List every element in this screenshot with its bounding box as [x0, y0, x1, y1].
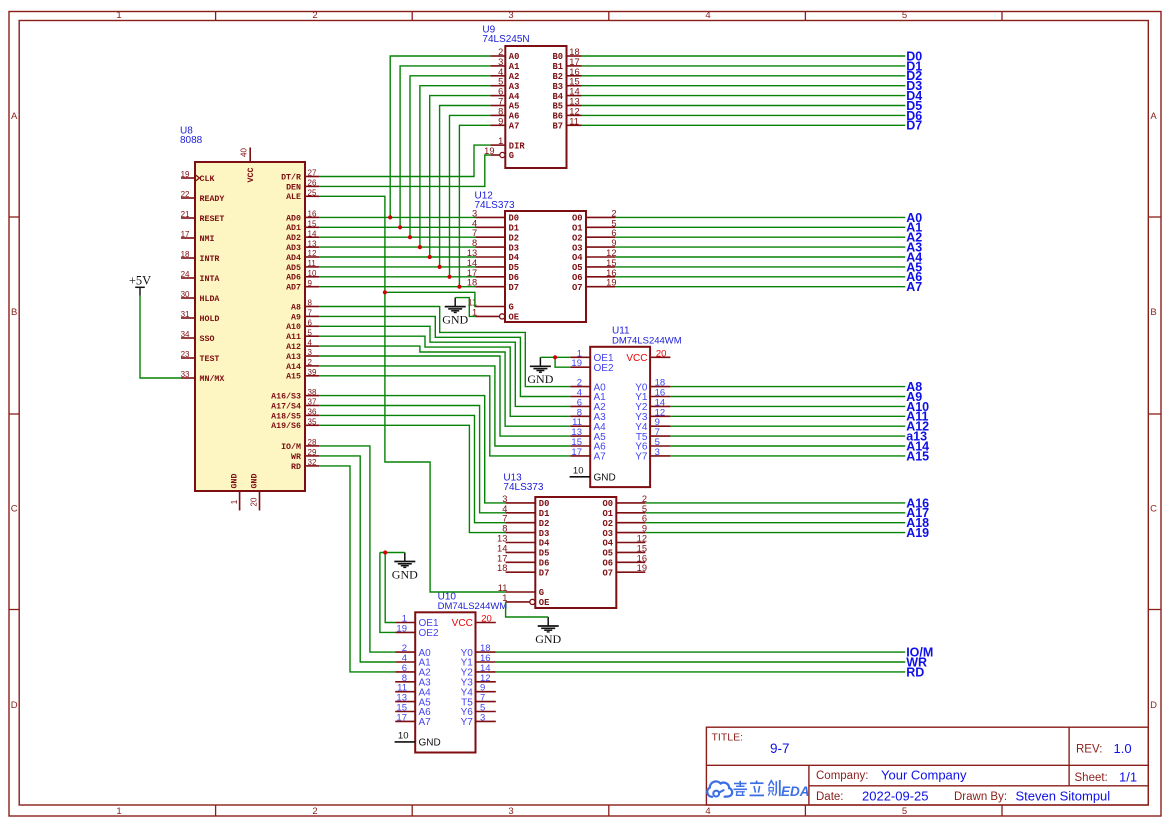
wire U13 O1 to net A17: [645, 512, 905, 514]
svg-text:B0: B0: [552, 52, 563, 62]
junction AD1: [398, 225, 402, 229]
svg-text:10: 10: [398, 731, 409, 742]
title block frame: [706, 727, 1148, 805]
svg-text:3: 3: [498, 57, 503, 67]
U12 pin 1 OE inverted: [472, 307, 519, 322]
svg-text:29: 29: [308, 448, 317, 457]
svg-text:16: 16: [569, 67, 579, 77]
svg-text:A19: A19: [906, 526, 929, 540]
wire ALE branch to U12 G: [385, 292, 476, 306]
wire ALE to U12 G and U13 G: [319, 196, 506, 592]
svg-text:GND: GND: [594, 473, 616, 484]
net label A17: [906, 506, 929, 520]
net label A16: [906, 496, 929, 510]
svg-text:15: 15: [569, 77, 579, 87]
svg-text:14: 14: [308, 229, 317, 238]
net label A9: [906, 390, 922, 404]
svg-text:A6: A6: [509, 112, 520, 122]
svg-text:O4: O4: [602, 539, 613, 549]
wire U9 B6 to net D6: [582, 114, 906, 116]
svg-text:37: 37: [308, 398, 317, 407]
svg-text:40: 40: [240, 148, 249, 157]
svg-text:32: 32: [308, 458, 317, 467]
title block Company: [816, 768, 967, 783]
svg-text:AD6: AD6: [286, 274, 301, 283]
svg-text:A1: A1: [509, 62, 520, 72]
wire AD0 bus U8 to U12 D0: [319, 216, 475, 218]
wire U13 O0 to net A16: [645, 502, 905, 504]
svg-text:18: 18: [569, 47, 579, 57]
ground GND4 at U13 OE: [535, 617, 561, 646]
U8 pin 20 GND: [250, 474, 260, 511]
wire A8 U8 to U11 A0: [319, 307, 570, 387]
U11 refdes label: [612, 326, 682, 347]
svg-text:D3: D3: [509, 243, 520, 253]
svg-text:A17/S4: A17/S4: [271, 401, 301, 411]
U10 left pins: [395, 614, 439, 729]
svg-text:C: C: [1150, 504, 1157, 515]
svg-text:17: 17: [571, 447, 582, 458]
svg-text:AD7: AD7: [286, 284, 301, 293]
svg-text:A8: A8: [291, 303, 301, 312]
wire U11 Y4 to net A12: [670, 425, 905, 427]
net label D1: [906, 59, 922, 73]
svg-text:HOLD: HOLD: [200, 315, 220, 324]
wire U10 Y1 to net WR: [496, 661, 906, 663]
U9 right pins B0-B7: [552, 47, 581, 132]
svg-text:35: 35: [308, 418, 317, 427]
svg-text:B4: B4: [552, 92, 563, 102]
frame column numbers: [116, 10, 907, 817]
svg-text:12: 12: [308, 249, 317, 258]
svg-text:23: 23: [181, 350, 190, 359]
wire U11 Y2 to net A10: [670, 405, 905, 407]
svg-text:A2: A2: [509, 72, 520, 82]
U8 left pins: [181, 170, 225, 384]
junction AD4: [428, 255, 432, 259]
latch U13 74LS373 body: [535, 497, 616, 608]
U9 refdes label: [482, 25, 529, 46]
wire A15 U8 to U11 A7: [319, 376, 570, 456]
svg-text:2022-09-25: 2022-09-25: [862, 789, 929, 804]
svg-text:17: 17: [569, 57, 579, 67]
U13 right pins O0-O7: [602, 494, 647, 579]
junction AD2: [408, 235, 412, 239]
U12 left pins D0-D7: [467, 208, 520, 293]
net label A3: [906, 241, 922, 255]
svg-text:D3: D3: [539, 529, 550, 539]
net label A8: [906, 380, 922, 394]
svg-text:13: 13: [308, 239, 317, 248]
svg-text:17: 17: [497, 553, 507, 563]
wire AD6 riser to U9 A6: [450, 115, 491, 276]
wire WR U8 to U10 A1: [319, 456, 395, 662]
U11 left pins: [570, 348, 614, 462]
U8 pin 40 VCC: [240, 148, 257, 183]
svg-text:D7: D7: [906, 119, 922, 133]
junction ALE branch: [383, 290, 387, 294]
U12 pin 11 G: [468, 298, 514, 313]
svg-text:G: G: [539, 588, 544, 598]
svg-text:14: 14: [569, 87, 579, 97]
svg-text:D2: D2: [509, 233, 520, 243]
svg-text:Steven Sitompul: Steven Sitompul: [1016, 789, 1111, 804]
svg-text:1: 1: [498, 136, 503, 146]
net label D7: [906, 119, 922, 133]
wire DT/R to U9 DIR: [319, 145, 490, 176]
svg-text:OE: OE: [509, 313, 520, 323]
svg-text:D4: D4: [509, 253, 520, 263]
wire U9 B4 to net D4: [582, 95, 906, 97]
wire A10 U8 to U11 A2: [319, 326, 570, 406]
wire AD4 bus U8 to U12 D4: [319, 256, 475, 258]
wire AD1 riser to U9 A1: [400, 66, 490, 227]
wire A17 U8 to U13 D1: [319, 406, 506, 513]
svg-text:4: 4: [498, 67, 503, 77]
svg-text:SSO: SSO: [200, 335, 215, 344]
svg-text:B5: B5: [552, 102, 563, 112]
svg-text:B7: B7: [552, 122, 563, 132]
wire AD7 bus U8 to U12 D7: [319, 286, 475, 288]
svg-text:O5: O5: [572, 263, 583, 273]
wire AD5 riser to U9 A5: [440, 106, 491, 267]
svg-text:DM74LS244WM: DM74LS244WM: [438, 601, 508, 612]
net label A5: [906, 260, 922, 274]
wire U12 O5 to net A5: [615, 266, 905, 268]
svg-text:10: 10: [573, 465, 584, 476]
wire RD U8 to U10 A2: [319, 466, 395, 672]
svg-text:5: 5: [308, 328, 313, 337]
wire A14 U8 to U11 A6: [319, 366, 570, 446]
svg-text:O3: O3: [602, 529, 613, 539]
svg-text:ALE: ALE: [286, 193, 301, 202]
net label A1: [906, 221, 922, 235]
U10 right pins Y0-Y7: [461, 643, 496, 728]
svg-text:O0: O0: [602, 499, 613, 509]
svg-text:O1: O1: [602, 509, 613, 519]
svg-text:A11: A11: [286, 333, 301, 342]
wire U10 Y2 to net RD: [496, 671, 906, 673]
U13 pin 11 G: [498, 583, 544, 598]
net label D6: [906, 109, 922, 123]
svg-text:OE2: OE2: [594, 363, 614, 374]
svg-text:19: 19: [637, 563, 647, 573]
svg-text:C: C: [11, 504, 18, 515]
wire AD3 bus U8 to U12 D3: [319, 246, 475, 248]
svg-text:D6: D6: [539, 559, 550, 569]
svg-text:3: 3: [308, 348, 313, 357]
wire U11 Y5 to net a13: [670, 435, 905, 437]
wire U12 OE to GND1: [455, 298, 475, 317]
svg-text:B6: B6: [552, 112, 563, 122]
wire AD6 bus U8 to U12 D6: [319, 276, 475, 278]
svg-text:A16/S3: A16/S3: [271, 392, 301, 402]
svg-text:7: 7: [308, 309, 313, 318]
svg-text:2: 2: [312, 806, 317, 817]
svg-text:74LS245N: 74LS245N: [482, 34, 529, 45]
junction U11 OE ground: [553, 355, 557, 359]
U8 right pins: [271, 169, 319, 472]
svg-text:D2: D2: [539, 519, 550, 529]
svg-text:12: 12: [606, 248, 616, 258]
U11 pin 10 GND: [570, 465, 616, 483]
junction U10 OE ground: [383, 550, 387, 554]
svg-text:A7: A7: [594, 452, 607, 463]
svg-text:A10: A10: [286, 323, 301, 332]
svg-text:10: 10: [308, 269, 317, 278]
power flag +5V: [129, 274, 151, 296]
svg-text:TEST: TEST: [200, 355, 220, 364]
ground GND2 near U10 OE: [392, 553, 418, 582]
svg-text:D4: D4: [539, 539, 550, 549]
svg-text:O6: O6: [602, 559, 613, 569]
U12 refdes label: [475, 191, 515, 212]
wire U13 OE to GND4: [506, 602, 549, 617]
svg-text:VCC: VCC: [452, 618, 473, 629]
wire AD7 riser to U9 A7: [459, 125, 490, 286]
svg-text:3: 3: [655, 447, 660, 458]
svg-text:VCC: VCC: [626, 353, 647, 364]
svg-text:19: 19: [181, 170, 190, 179]
svg-text:GND: GND: [392, 567, 418, 581]
svg-text:GND: GND: [230, 474, 239, 489]
svg-text:DT/R: DT/R: [281, 172, 301, 182]
wire U9 B1 to net D1: [582, 65, 906, 67]
svg-text:A3: A3: [509, 82, 520, 92]
wire U9 B0 to net D0: [582, 55, 906, 57]
svg-text:15: 15: [637, 543, 647, 553]
svg-text:12: 12: [637, 534, 647, 544]
svg-text:D7: D7: [539, 568, 550, 578]
wire U10 Y0 to net IO/M: [496, 651, 906, 653]
svg-text:33: 33: [181, 370, 190, 379]
svg-text:25: 25: [308, 189, 317, 198]
svg-text:Y7: Y7: [635, 452, 648, 463]
svg-text:REV:: REV:: [1076, 744, 1102, 756]
svg-text:1: 1: [116, 10, 121, 21]
svg-text:4: 4: [705, 10, 710, 21]
U9 left pins A0-A7: [490, 47, 520, 132]
title block Date: [816, 789, 929, 804]
svg-text:OE2: OE2: [419, 628, 439, 639]
U11 right pins Y0-Y7: [635, 378, 670, 463]
wire U11 Y0 to net A8: [670, 386, 905, 388]
svg-text:2: 2: [312, 10, 317, 21]
svg-text:34: 34: [181, 330, 190, 339]
net label D2: [906, 69, 922, 83]
svg-text:A4: A4: [509, 92, 520, 102]
svg-text:O7: O7: [602, 568, 613, 578]
svg-text:14: 14: [497, 543, 507, 553]
svg-text:3: 3: [508, 806, 513, 817]
svg-text:36: 36: [308, 408, 317, 417]
svg-text:INTA: INTA: [200, 275, 220, 284]
wire U9 B7 to net D7: [582, 124, 906, 126]
net label A10: [906, 400, 929, 414]
net label RD: [906, 665, 924, 679]
svg-text:20: 20: [250, 497, 259, 506]
U10 pin 10 GND: [395, 731, 441, 749]
net label A19: [906, 526, 929, 540]
svg-text:O2: O2: [572, 233, 583, 243]
svg-text:17: 17: [396, 712, 407, 723]
svg-text:O2: O2: [602, 519, 613, 529]
svg-text:EDA: EDA: [781, 784, 810, 799]
svg-text:O0: O0: [572, 214, 583, 224]
wire AD4 riser to U9 A4: [430, 96, 491, 257]
svg-text:1: 1: [116, 806, 121, 817]
U8 pin 1 GND: [230, 474, 240, 511]
svg-text:A15: A15: [286, 373, 301, 382]
svg-text:D1: D1: [539, 509, 550, 519]
svg-text:Y7: Y7: [461, 717, 474, 728]
svg-text:3: 3: [508, 10, 513, 21]
svg-text:30: 30: [181, 290, 190, 299]
wire A18 U8 to U13 D2: [319, 415, 506, 522]
svg-text:DEN: DEN: [286, 183, 301, 192]
svg-text:1/1: 1/1: [1119, 770, 1137, 785]
svg-text:38: 38: [308, 388, 317, 397]
wire IO/M U8 to U10 A0: [319, 446, 395, 652]
svg-text:A0: A0: [509, 52, 520, 62]
buffer U9 74LS245N body: [505, 46, 566, 168]
wire U9 B3 to net D3: [582, 85, 906, 87]
junction AD3: [418, 245, 422, 249]
wire U13 O2 to net A18: [645, 522, 905, 524]
net label A4: [906, 250, 922, 264]
ground GND1 at U12 OE: [442, 298, 468, 327]
svg-text:Your Company: Your Company: [881, 768, 967, 783]
svg-text:74LS373: 74LS373: [475, 200, 515, 211]
wire AD0 riser to U9 A0: [390, 56, 490, 217]
svg-text:18: 18: [497, 563, 507, 573]
svg-text:INTR: INTR: [200, 255, 220, 264]
U12 right pins O0-O7: [572, 208, 617, 293]
svg-text:19: 19: [396, 623, 407, 634]
junction AD6: [447, 275, 451, 279]
U13 pin 1 OE inverted: [502, 593, 549, 608]
wire U13 O3 to net A19: [645, 532, 905, 534]
ground GND5 at U11 OE: [527, 357, 553, 386]
svg-text:5: 5: [902, 806, 907, 817]
svg-text:27: 27: [308, 169, 317, 178]
svg-text:O7: O7: [572, 283, 583, 293]
svg-text:RESET: RESET: [200, 215, 225, 224]
svg-text:D5: D5: [509, 263, 520, 273]
wire U12 O7 to net A7: [615, 286, 905, 288]
svg-text:9: 9: [308, 279, 313, 288]
svg-text:D6: D6: [509, 273, 520, 283]
svg-text:16: 16: [637, 553, 647, 563]
wire U12 O6 to net A6: [615, 276, 905, 278]
svg-text:12: 12: [569, 106, 579, 116]
svg-text:28: 28: [308, 438, 317, 447]
svg-text:A19/S6: A19/S6: [271, 421, 301, 431]
svg-text:D0: D0: [509, 214, 520, 224]
svg-text:B: B: [11, 307, 17, 318]
svg-text:B: B: [1150, 307, 1156, 318]
wire U12 O1 to net A1: [615, 226, 905, 228]
wire U9 B5 to net D5: [582, 105, 906, 107]
wire U11 Y3 to net A11: [670, 415, 905, 417]
title block Drawn By: [954, 789, 1110, 804]
svg-text:A14: A14: [286, 363, 301, 372]
svg-text:13: 13: [569, 97, 579, 107]
net label A6: [906, 270, 922, 284]
wire A11 U8 to U11 A3: [319, 336, 570, 416]
wire U11 Y7 to net A15: [670, 455, 905, 457]
wire AD1 bus U8 to U12 D1: [319, 226, 475, 228]
wire U9 B2 to net D2: [582, 75, 906, 77]
svg-text:AD2: AD2: [286, 234, 301, 243]
svg-text:24: 24: [181, 270, 190, 279]
net label A15: [906, 449, 929, 463]
U10 refdes label: [438, 591, 508, 611]
svg-text:4: 4: [705, 806, 710, 817]
svg-text:11: 11: [569, 116, 579, 126]
U11 pin 20 VCC: [626, 348, 670, 364]
svg-text:13: 13: [497, 534, 507, 544]
svg-text:5: 5: [902, 10, 907, 21]
title block REV 1.0: [1076, 741, 1132, 756]
svg-text:GND: GND: [535, 632, 561, 646]
wire U10 OE2 to GND2: [380, 553, 395, 633]
svg-text:A13: A13: [286, 353, 301, 362]
U13 left pins D0-D7: [497, 494, 550, 579]
svg-text:RD: RD: [291, 463, 301, 472]
svg-text:IO/M: IO/M: [281, 442, 301, 452]
svg-text:8: 8: [308, 299, 313, 308]
svg-text:26: 26: [308, 179, 317, 188]
svg-text:D: D: [1150, 700, 1157, 711]
svg-text:AD5: AD5: [286, 264, 301, 273]
net label A0: [906, 211, 922, 225]
svg-text:A7: A7: [419, 717, 432, 728]
wire AD5 bus U8 to U12 D5: [319, 266, 475, 268]
net label IO/M: [906, 646, 933, 660]
svg-text:2: 2: [498, 47, 503, 57]
svg-text:O3: O3: [572, 243, 583, 253]
svg-text:+5V: +5V: [129, 274, 151, 288]
svg-text:G: G: [509, 151, 514, 161]
svg-text:A5: A5: [509, 102, 520, 112]
net label A2: [906, 231, 922, 245]
logo JLCEDA cloud: [707, 781, 732, 796]
wire U12 O4 to net A4: [615, 256, 905, 258]
wire U11 OE1 OE2 to GND5: [540, 357, 570, 367]
svg-text:18: 18: [181, 250, 190, 259]
junction AD5: [438, 265, 442, 269]
net label WR: [906, 655, 927, 669]
svg-text:3: 3: [480, 712, 485, 723]
svg-text:A12: A12: [286, 343, 301, 352]
svg-text:19: 19: [571, 358, 582, 369]
svg-text:G: G: [509, 303, 514, 313]
svg-text:22: 22: [181, 190, 190, 199]
svg-text:1.0: 1.0: [1114, 741, 1132, 756]
svg-text:20: 20: [481, 614, 492, 625]
wire U12 O3 to net A3: [615, 246, 905, 248]
svg-text:Drawn By:: Drawn By:: [954, 791, 1007, 803]
svg-text:Company:: Company:: [816, 770, 868, 782]
svg-text:D1: D1: [509, 224, 520, 234]
svg-text:D7: D7: [509, 283, 520, 293]
svg-text:A15: A15: [906, 449, 929, 463]
svg-text:AD3: AD3: [286, 244, 301, 253]
svg-text:NMI: NMI: [200, 235, 215, 244]
svg-text:Sheet:: Sheet:: [1075, 772, 1108, 784]
svg-text:O4: O4: [572, 253, 583, 263]
